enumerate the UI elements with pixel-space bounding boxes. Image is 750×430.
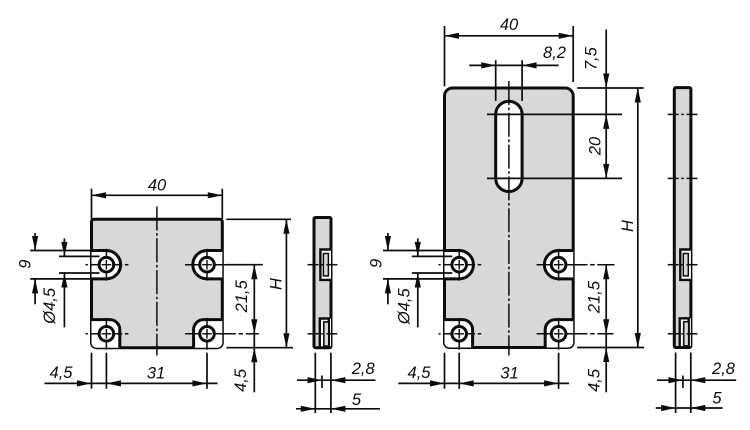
- svg-text:2,8: 2,8: [351, 360, 376, 378]
- svg-text:8,2: 8,2: [543, 44, 566, 62]
- svg-text:31: 31: [147, 365, 165, 383]
- svg-text:4,5: 4,5: [408, 364, 432, 382]
- svg-text:9: 9: [17, 260, 35, 269]
- svg-text:4,5: 4,5: [50, 364, 74, 382]
- svg-text:H: H: [619, 220, 637, 232]
- svg-text:Ø4,5: Ø4,5: [41, 287, 59, 325]
- svg-text:20: 20: [587, 136, 605, 156]
- svg-text:2,8: 2,8: [711, 360, 736, 378]
- svg-text:9: 9: [368, 259, 386, 268]
- svg-text:H: H: [267, 278, 285, 290]
- svg-text:7,5: 7,5: [583, 46, 601, 70]
- svg-text:5: 5: [352, 391, 362, 409]
- svg-text:21,5: 21,5: [586, 280, 604, 314]
- svg-text:5: 5: [712, 390, 722, 408]
- svg-text:4,5: 4,5: [586, 368, 604, 392]
- svg-text:40: 40: [500, 16, 519, 34]
- svg-text:4,5: 4,5: [232, 368, 250, 392]
- svg-text:31: 31: [500, 365, 518, 383]
- svg-text:Ø4,5: Ø4,5: [396, 287, 414, 325]
- svg-text:40: 40: [148, 176, 167, 194]
- svg-text:21,5: 21,5: [233, 279, 251, 313]
